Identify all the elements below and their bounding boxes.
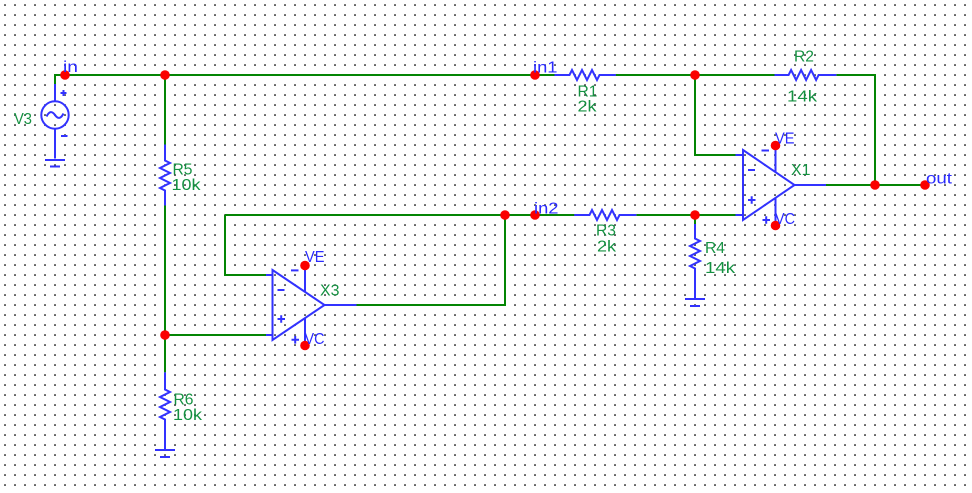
svg-text:VE: VE xyxy=(305,249,325,266)
svg-text:R5: R5 xyxy=(173,162,193,179)
svg-text:2k: 2k xyxy=(578,99,597,116)
svg-text:R2: R2 xyxy=(794,49,814,66)
svg-text:10k: 10k xyxy=(173,407,202,424)
svg-text:VC: VC xyxy=(305,331,325,348)
svg-text:V3: V3 xyxy=(14,111,32,128)
svg-text:R4: R4 xyxy=(705,240,725,257)
svg-text:in2: in2 xyxy=(534,201,559,218)
svg-text:X1: X1 xyxy=(791,162,811,179)
svg-text:14k: 14k xyxy=(705,260,735,277)
svg-text:out: out xyxy=(926,171,953,188)
svg-text:VC: VC xyxy=(775,211,795,228)
svg-text:14k: 14k xyxy=(787,89,817,106)
svg-text:R6: R6 xyxy=(174,392,194,409)
svg-text:X3: X3 xyxy=(320,283,340,300)
svg-text:in: in xyxy=(63,59,78,76)
svg-text:in1: in1 xyxy=(533,60,558,77)
svg-text:VE: VE xyxy=(775,131,795,148)
svg-text:10k: 10k xyxy=(172,177,201,194)
svg-text:R3: R3 xyxy=(596,223,616,240)
svg-text:2k: 2k xyxy=(597,239,616,256)
